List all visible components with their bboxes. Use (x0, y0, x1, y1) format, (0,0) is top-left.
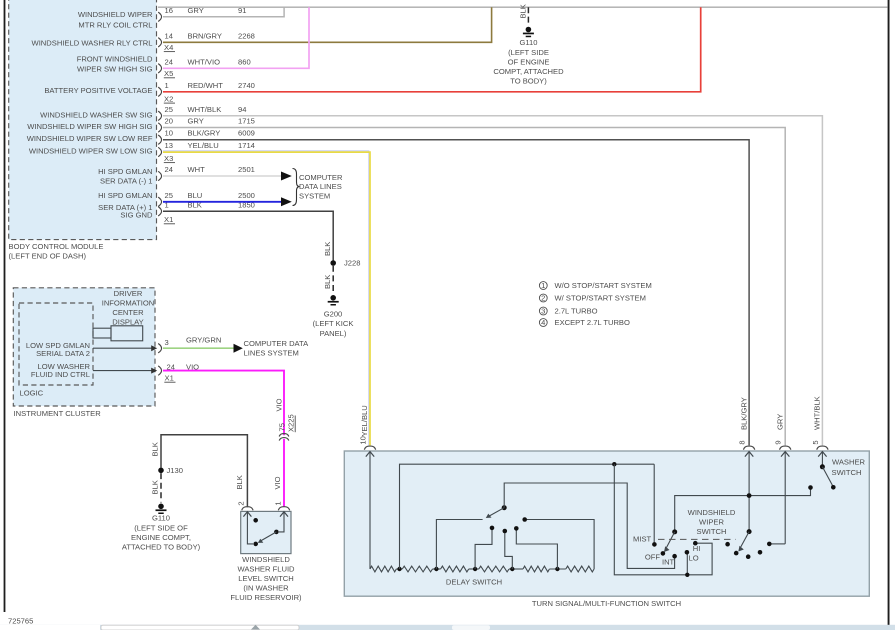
svg-text:2: 2 (237, 501, 246, 505)
svg-text:BATTERY POSITIVE VOLTAGE: BATTERY POSITIVE VOLTAGE (44, 86, 152, 95)
svg-text:ATTACHED TO BODY): ATTACHED TO BODY) (122, 543, 201, 552)
svg-text:94: 94 (238, 105, 246, 114)
washer switch pivot and blade (820, 464, 836, 489)
windshield wiper switch label (688, 508, 736, 536)
svg-text:860: 860 (238, 57, 251, 66)
svg-text:LOGIC: LOGIC (20, 389, 44, 398)
svg-text:HI: HI (693, 544, 701, 553)
svg-text:YEL/BLU: YEL/BLU (360, 405, 369, 436)
wire GRY 1715 pin20 (163, 128, 785, 446)
svg-text:BLK: BLK (151, 442, 160, 456)
svg-text:X3: X3 (164, 154, 173, 163)
delay switch contact dots (490, 517, 527, 533)
svg-text:X2: X2 (164, 95, 173, 104)
svg-text:MIST: MIST (633, 534, 652, 543)
svg-text:W/O STOP/START SYSTEM: W/O STOP/START SYSTEM (555, 281, 652, 290)
svg-text:1: 1 (541, 281, 545, 290)
svg-text:2268: 2268 (238, 31, 255, 40)
wire BLK to G110 (dashed) (151, 473, 161, 502)
svg-text:G110: G110 (519, 38, 537, 47)
svg-text:WINDSHIELD: WINDSHIELD (688, 508, 736, 517)
svg-text:X225: X225 (287, 414, 296, 432)
svg-text:LINES SYSTEM: LINES SYSTEM (244, 348, 299, 357)
svg-text:BLK/GRY: BLK/GRY (188, 129, 221, 138)
svg-text:6009: 6009 (238, 129, 255, 138)
svg-text:COMPUTER DATA: COMPUTER DATA (244, 339, 310, 348)
svg-text:LEVEL SWITCH: LEVEL SWITCH (238, 574, 293, 583)
wire LO contact drop (686, 552, 688, 575)
svg-text:(LEFT END OF DASH): (LEFT END OF DASH) (9, 252, 87, 261)
svg-text:WINDSHIELD: WINDSHIELD (242, 555, 290, 564)
svg-text:W/ STOP/START SYSTEM: W/ STOP/START SYSTEM (555, 294, 646, 303)
svg-text:DELAY SWITCH: DELAY SWITCH (446, 577, 502, 586)
svg-text:INT: INT (662, 558, 675, 567)
svg-text:WHT/VIO: WHT/VIO (188, 57, 221, 66)
svg-text:FLUID RESERVOIR): FLUID RESERVOIR) (230, 593, 302, 602)
wire GRY to pole2 HI contact (772, 543, 786, 545)
svg-text:16: 16 (165, 6, 173, 15)
svg-text:SIG GND: SIG GND (120, 210, 153, 219)
wire VIO from IC pin24 (163, 371, 284, 507)
svg-text:WINDSHIELD WASHER RLY CTRL: WINDSHIELD WASHER RLY CTRL (32, 39, 153, 48)
wiper switch pole1 common from BLK/GRY (675, 489, 811, 532)
svg-text:FRONT WINDSHIELD: FRONT WINDSHIELD (77, 55, 153, 64)
BCM connector pins with wire id text (158, 6, 255, 216)
svg-text:1: 1 (165, 81, 169, 90)
wire RED/WHT 2740 pin1 (163, 7, 701, 92)
svg-text:DISPLAY: DISPLAY (112, 317, 144, 326)
wire BLU 2500 pin25 (163, 201, 281, 203)
svg-text:5: 5 (811, 440, 820, 444)
svg-text:91: 91 (238, 6, 246, 15)
svg-text:DRIVER: DRIVER (114, 289, 143, 298)
svg-text:WINDSHIELD WIPER SW HIGH SIG: WINDSHIELD WIPER SW HIGH SIG (27, 122, 152, 131)
svg-text:WINDSHIELD WIPER: WINDSHIELD WIPER (78, 10, 153, 19)
svg-text:BLK: BLK (518, 4, 527, 18)
wire BLK washer fluid switch pin2 to G110 (161, 435, 247, 508)
svg-text:X1: X1 (165, 374, 174, 383)
bottom scrollbar strip (0, 625, 895, 630)
driver information center display (93, 289, 154, 341)
wire tap: chain end to delay contact 5 (527, 520, 594, 570)
wire BLK to G200 (dashed) (323, 266, 333, 294)
splice J228 (323, 242, 361, 268)
svg-text:2500: 2500 (238, 191, 255, 200)
svg-text:3: 3 (541, 306, 545, 315)
svg-text:24: 24 (165, 165, 173, 174)
float switch blade (258, 532, 277, 543)
ground G110 top (BLK from cut-off box) (493, 4, 564, 85)
svg-text:(LEFT SIDE OF: (LEFT SIDE OF (134, 523, 188, 532)
washer switch label (832, 458, 866, 478)
delay switch wiper blade (486, 505, 507, 518)
IC pin 3 (LOW SPD GMLAN SERIAL DATA 2) (26, 335, 221, 357)
junction dot on MIST bus (612, 462, 616, 466)
svg-text:J228: J228 (344, 259, 360, 268)
svg-text:4: 4 (541, 318, 545, 327)
wire tap: delay contact 4 (516, 530, 557, 569)
svg-text:BLK/GRY: BLK/GRY (739, 397, 748, 430)
svg-text:2501: 2501 (238, 165, 255, 174)
svg-text:10: 10 (165, 129, 173, 138)
delay switch resistor chain (370, 566, 594, 586)
svg-text:X5: X5 (164, 69, 173, 78)
wire WHT 2501 pin24 (163, 175, 281, 177)
svg-text:GRY: GRY (188, 117, 204, 126)
svg-text:9: 9 (774, 440, 783, 444)
ground G200 (313, 295, 354, 338)
svg-text:MTR RLY COIL CTRL: MTR RLY COIL CTRL (78, 20, 152, 29)
top cut-off component box bottom edge (158, 6, 888, 8)
svg-text:COMPUTER: COMPUTER (299, 173, 343, 182)
svg-text:HI SPD GMLAN: HI SPD GMLAN (98, 191, 152, 200)
svg-text:DATA LINES: DATA LINES (299, 182, 342, 191)
svg-text:(LEFT KICK: (LEFT KICK (313, 319, 354, 328)
svg-text:SWITCH: SWITCH (697, 527, 727, 536)
svg-text:VIO: VIO (275, 398, 284, 411)
inline connector X225 pin 75 (277, 414, 295, 440)
svg-text:OFF: OFF (645, 552, 661, 561)
svg-text:GRY/GRN: GRY/GRN (186, 335, 221, 344)
wire tap: delay contact 1 (436, 520, 482, 570)
wire BLK 1850 pin1 (163, 211, 333, 260)
logic box (19, 303, 93, 398)
svg-text:BLK: BLK (151, 480, 160, 494)
svg-text:SER DATA (-) 1: SER DATA (-) 1 (100, 177, 152, 186)
svg-text:WHT/BLK: WHT/BLK (188, 105, 222, 114)
svg-text:BLK: BLK (235, 475, 244, 489)
wire YEL/BLU 1714 pin13 (163, 151, 369, 446)
svg-text:GRY: GRY (188, 6, 204, 15)
svg-text:SWITCH: SWITCH (832, 468, 862, 477)
svg-text:24: 24 (165, 57, 173, 66)
wire tap: delay contact 2 (475, 530, 492, 569)
svg-text:WHT/BLK: WHT/BLK (813, 396, 822, 430)
body control module box (9, 0, 157, 261)
position labels (633, 534, 700, 566)
entry pin 8 BLK/GRY (738, 440, 755, 531)
pole2 contacts (725, 542, 771, 559)
svg-text:25: 25 (165, 191, 173, 200)
svg-text:X1: X1 (164, 215, 173, 224)
svg-text:25: 25 (165, 105, 173, 114)
wire BLK/GRY 6009 pin10 (163, 140, 749, 446)
pin 1 entry (273, 501, 289, 532)
svg-text:75: 75 (277, 423, 286, 431)
entry pin 9 GRY (774, 440, 791, 544)
wire MIST bus down to MIST contact (653, 464, 655, 544)
entry pin 5 WHT/BLK (811, 440, 828, 466)
junction dot pole1 bus at BLK/GRY (747, 493, 752, 498)
svg-text:G110: G110 (152, 514, 170, 523)
svg-text:1: 1 (273, 501, 282, 505)
svg-text:PANEL): PANEL) (320, 329, 347, 338)
svg-text:TO BODY): TO BODY) (510, 77, 547, 86)
svg-text:X4: X4 (164, 43, 173, 52)
wire BRN/GRY 2268 pin14 (163, 7, 492, 42)
wire WHT/BLK 94 pin25 (163, 116, 822, 446)
wiper switch pole2 blade (738, 529, 751, 551)
svg-text:SERIAL DATA 2: SERIAL DATA 2 (36, 349, 90, 358)
svg-text:INFORMATION: INFORMATION (102, 299, 155, 308)
svg-text:3: 3 (165, 338, 169, 347)
svg-text:BODY CONTROL MODULE: BODY CONTROL MODULE (9, 242, 104, 251)
windshield washer fluid level switch box (230, 511, 302, 602)
page left border (4, 0, 6, 612)
junction dot LO drop (685, 573, 689, 577)
wire GRY 91 pin16 (163, 7, 284, 17)
legend notes 1-4 (539, 281, 651, 327)
BCM connector names X4 X5 X2 X3 X1 (164, 43, 175, 224)
svg-text:BLK: BLK (323, 242, 332, 256)
svg-text:BLK: BLK (323, 275, 332, 289)
svg-text:20: 20 (165, 117, 173, 126)
svg-text:1715: 1715 (238, 117, 255, 126)
svg-text:EXCEPT 2.7L TURBO: EXCEPT 2.7L TURBO (555, 318, 630, 327)
svg-text:WIPER: WIPER (699, 517, 724, 526)
svg-text:725765: 725765 (8, 616, 33, 625)
turn signal/multi-function switch box (344, 451, 869, 608)
instrument cluster box (13, 288, 155, 418)
pin 2 entry (237, 501, 254, 544)
ground G110 bottom (122, 504, 201, 552)
svg-text:WIPER SW HIGH SIG: WIPER SW HIGH SIG (77, 65, 153, 74)
wire GRY/GRN to computer data lines (163, 339, 309, 357)
svg-text:GRY: GRY (775, 414, 784, 430)
svg-text:YEL/BLU: YEL/BLU (188, 141, 219, 150)
svg-text:(LEFT SIDE: (LEFT SIDE (508, 48, 549, 57)
wire HI/LO to MIST bus (614, 464, 712, 575)
wiper switch pole1 blade (664, 529, 677, 552)
svg-text:TURN SIGNAL/MULTI-FUNCTION SWI: TURN SIGNAL/MULTI-FUNCTION SWITCH (532, 599, 681, 608)
svg-text:2.7L TURBO: 2.7L TURBO (555, 307, 598, 316)
svg-text:2740: 2740 (238, 81, 255, 90)
pole1 contacts MIST OFF INT LO HI (652, 541, 697, 559)
svg-text:BRN/GRY: BRN/GRY (188, 31, 222, 40)
svg-text:WINDSHIELD WASHER SW SIG: WINDSHIELD WASHER SW SIG (40, 111, 152, 120)
svg-text:CENTER: CENTER (112, 308, 144, 317)
svg-text:RED/WHT: RED/WHT (188, 81, 224, 90)
resistor chain junction dots (397, 567, 559, 571)
entry pin 10 YEL/BLU (359, 436, 376, 569)
svg-text:SYSTEM: SYSTEM (299, 192, 330, 201)
wire tap: chain start up to MIST bus (400, 464, 655, 569)
computer data lines system arrows (BCM) (281, 169, 343, 207)
svg-text:LO: LO (689, 554, 699, 563)
BCM pin function labels (27, 10, 153, 219)
svg-text:INSTRUMENT CLUSTER: INSTRUMENT CLUSTER (14, 409, 102, 418)
svg-text:(IN WASHER: (IN WASHER (243, 584, 289, 593)
svg-text:13: 13 (165, 141, 173, 150)
svg-text:8: 8 (738, 440, 747, 444)
svg-text:FLUID IND CTRL: FLUID IND CTRL (31, 370, 90, 379)
svg-text:WASHER FLUID: WASHER FLUID (237, 565, 295, 574)
svg-text:14: 14 (165, 31, 173, 40)
IC pin 24 (LOW WASHER FLUID IND CTRL) (31, 362, 199, 383)
svg-text:J130: J130 (167, 466, 183, 475)
mechanical linkage dashed line (658, 538, 736, 540)
wire delay wiper to INT contact (504, 483, 674, 568)
svg-text:G200: G200 (324, 310, 343, 319)
wire WHT/VIO 860 pin24 (163, 7, 309, 68)
page right border (888, 0, 890, 627)
svg-text:HI SPD GMLAN: HI SPD GMLAN (98, 167, 152, 176)
svg-text:WINDSHIELD WIPER SW LOW SIG: WINDSHIELD WIPER SW LOW SIG (29, 146, 153, 155)
svg-text:WINDSHIELD WIPER SW LOW REF: WINDSHIELD WIPER SW LOW REF (27, 134, 153, 143)
svg-text:OF ENGINE: OF ENGINE (508, 57, 550, 66)
washer switch contact (808, 485, 813, 490)
svg-text:1714: 1714 (238, 141, 255, 150)
svg-text:COMPT, ATTACHED: COMPT, ATTACHED (493, 67, 564, 76)
svg-text:2: 2 (541, 293, 545, 302)
svg-text:BLU: BLU (188, 191, 203, 200)
wire tap: delay contact 3 (505, 533, 513, 569)
splice J130 (158, 466, 183, 475)
svg-text:VIO: VIO (273, 476, 282, 489)
svg-text:WHT: WHT (188, 165, 206, 174)
svg-text:WASHER: WASHER (832, 458, 866, 467)
svg-text:ENGINE COMPT,: ENGINE COMPT, (131, 533, 191, 542)
float switch contacts (253, 518, 278, 546)
